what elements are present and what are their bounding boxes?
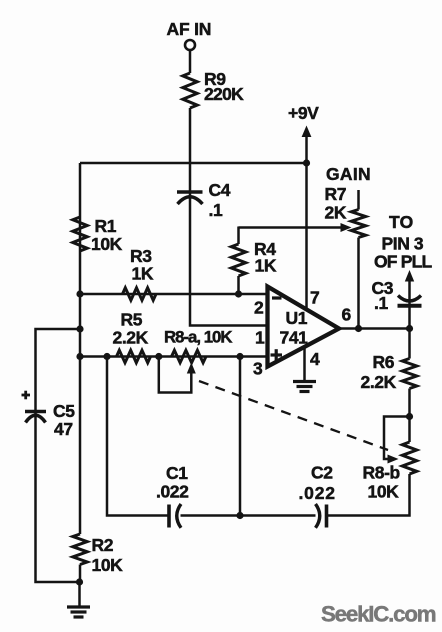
capacitor C3 [398, 296, 422, 306]
label C3 value .1 [374, 293, 388, 313]
label C5 plus [22, 391, 31, 400]
label TO [389, 212, 414, 232]
node ground junction [76, 578, 83, 585]
svg-text:.022: .022 [156, 482, 189, 502]
svg-text:R2: R2 [92, 535, 114, 555]
wire R9 to C4 to pin1 corner [190, 108, 268, 326]
svg-text:741: 741 [280, 328, 309, 348]
wire AF IN to R9 [189, 50, 192, 73]
label 741 [280, 328, 309, 348]
svg-text:GAIN: GAIN [326, 164, 371, 184]
svg-text:1K: 1K [132, 264, 154, 284]
label C3 [372, 278, 394, 298]
svg-text:10K: 10K [91, 234, 123, 254]
wire R7 bottom [357, 238, 360, 329]
svg-text:7: 7 [310, 288, 319, 308]
resistor R9 [183, 73, 197, 108]
resistor R4 [231, 244, 245, 276]
wire output pin6 row [339, 327, 410, 330]
label pin 3 [253, 359, 263, 379]
label U1 [286, 308, 308, 328]
label C5 [53, 401, 75, 421]
label R6 value 2.2K [361, 372, 397, 392]
svg-text:R8-a, 10K: R8-a, 10K [164, 328, 232, 347]
wire pin4 [303, 347, 306, 381]
node pin3 drop junction [236, 353, 243, 360]
label R1 [95, 216, 117, 236]
svg-text:AF IN: AF IN [167, 19, 212, 39]
svg-text:1K: 1K [255, 256, 277, 276]
svg-text:PIN 3: PIN 3 [382, 234, 424, 254]
node AF IN terminal [185, 40, 195, 50]
resistor R7 [351, 210, 365, 238]
label C2 [311, 463, 333, 483]
svg-text:OF PLL: OF PLL [374, 252, 433, 272]
node +9V junction [303, 159, 310, 166]
ground bottom left [67, 607, 90, 617]
wire R4 bottom [237, 276, 240, 294]
svg-text:2K: 2K [325, 203, 347, 223]
label R2 [92, 535, 114, 555]
resistor R2 [73, 534, 87, 565]
label R4 value 1K [255, 256, 277, 276]
svg-text:6: 6 [342, 305, 352, 325]
wire R8-b wiper arrow [388, 455, 399, 464]
svg-text:C1: C1 [166, 463, 188, 483]
wire R4 top [237, 227, 240, 245]
label R8-a 10K [164, 328, 232, 347]
svg-text:C2: C2 [311, 463, 333, 483]
svg-text:R8-b: R8-b [363, 463, 400, 483]
label C1 [166, 463, 188, 483]
label GAIN [326, 164, 371, 184]
label pin 7 [310, 288, 319, 308]
label 220K [204, 84, 244, 104]
resistor R6 [402, 359, 416, 389]
wire top +9V rail [80, 162, 307, 165]
label R2 value 10K [92, 555, 124, 575]
label OF PLL [374, 252, 433, 272]
label R5 value 2.2K [113, 328, 149, 348]
svg-text:2.2K: 2.2K [361, 372, 397, 392]
ground op-amp pin4 [293, 382, 316, 392]
label +9V [288, 103, 319, 123]
node bottom row junction [236, 512, 243, 519]
label C4 value .1 [209, 200, 223, 220]
label R8-b value 10K [368, 482, 400, 502]
capacitor C2 [316, 504, 327, 528]
wire ground stem [78, 582, 81, 606]
svg-text:10K: 10K [368, 482, 400, 502]
op-amp U1 [268, 287, 340, 367]
label R8-b [363, 463, 400, 483]
label PIN 3 [382, 234, 424, 254]
svg-text:SeekIC.com: SeekIC.com [321, 602, 436, 627]
resistor R8-b [402, 442, 416, 474]
svg-text:4: 4 [310, 349, 320, 369]
label C5 value 47 [54, 419, 73, 439]
capacitor C4 [177, 192, 203, 204]
label watermark SeekIC.com [321, 602, 436, 627]
node left rail pin3 junction [76, 353, 83, 360]
wire R8-b wiper bracket [384, 417, 410, 460]
svg-text:C4: C4 [209, 180, 231, 200]
wire R8-b to bottom row [328, 474, 410, 516]
capacitor C5 [25, 412, 46, 423]
svg-text:2: 2 [254, 298, 264, 318]
label R6 [373, 352, 395, 372]
label R9 [204, 69, 226, 89]
wire output junction to R6 [408, 329, 411, 359]
label plus pin3 [271, 349, 283, 361]
resistor R1 [73, 217, 87, 251]
label R3 [130, 246, 152, 266]
node left rail pin2 junction [76, 290, 83, 297]
wire pin3 to C1C2 junction drop [239, 357, 242, 516]
resistor R8-a [172, 350, 207, 362]
svg-text:U1: U1 [286, 308, 308, 328]
wire R7 top stub [357, 190, 360, 210]
node R7 output junction [355, 325, 362, 332]
svg-text:220K: 220K [204, 84, 244, 104]
svg-text:C5: C5 [53, 401, 75, 421]
svg-text:+9V: +9V [288, 103, 319, 123]
node R4 pin2 junction [235, 290, 242, 297]
node C1 drop junction [103, 353, 110, 360]
svg-text:.1: .1 [209, 200, 223, 220]
svg-text:R6: R6 [373, 352, 395, 372]
label pin 4 [310, 349, 320, 369]
wire +9V rail to pin7 [305, 163, 308, 310]
node R6 R8-b junction [406, 413, 413, 420]
svg-text:R7: R7 [325, 184, 347, 204]
svg-text:3: 3 [253, 359, 263, 379]
svg-text:47: 47 [54, 419, 73, 439]
wire C1 to C2 [181, 514, 316, 517]
svg-text:2.2K: 2.2K [113, 328, 149, 348]
wire left rail [79, 163, 82, 534]
wire left rail lower [79, 565, 82, 583]
label C4 [209, 180, 231, 200]
label AF IN [167, 19, 212, 39]
svg-text:1: 1 [255, 328, 265, 348]
svg-text:R5: R5 [121, 310, 143, 330]
node output right rail junction [406, 325, 413, 332]
wire R8-a wiper arrow [187, 363, 196, 374]
label C1 value .022 [156, 482, 189, 502]
wire C5 branch [36, 329, 81, 582]
wire C1 left drop [107, 357, 168, 516]
svg-text:TO: TO [389, 212, 414, 232]
wire R4 top bracket and R7 wiper arrow [239, 223, 352, 232]
node R5 R8-a junction [155, 353, 162, 360]
wire R6 to R8-b junction [408, 389, 411, 443]
label R7 [325, 184, 347, 204]
label R3 value 1K [132, 264, 154, 284]
label pin 6 [342, 305, 352, 325]
wire pin2 row [80, 293, 268, 296]
label pin 2 [254, 298, 264, 318]
svg-text:R1: R1 [95, 216, 117, 236]
wire pin3 row [80, 355, 268, 358]
label C2 value .022 [299, 483, 336, 503]
resistor R5 [117, 350, 151, 362]
label minus pin2 [272, 296, 282, 299]
label R4 [254, 239, 276, 259]
wire dashed gang line R8-a to R8-b [199, 381, 388, 450]
label R5 [121, 310, 143, 330]
svg-text:10K: 10K [92, 555, 124, 575]
power +9V arrow [302, 126, 312, 164]
svg-text:.022: .022 [299, 483, 336, 503]
wire C3 arrow to PLL [405, 270, 414, 329]
node C5 tee junction [76, 325, 83, 332]
label R7 value 2K [325, 203, 347, 223]
resistor R3 [123, 288, 157, 300]
label R1 value 10K [91, 234, 123, 254]
svg-text:.1: .1 [374, 293, 388, 313]
label pin 1 [255, 328, 265, 348]
wire R8-a wiper bracket [159, 357, 192, 393]
capacitor C1 [169, 504, 181, 528]
